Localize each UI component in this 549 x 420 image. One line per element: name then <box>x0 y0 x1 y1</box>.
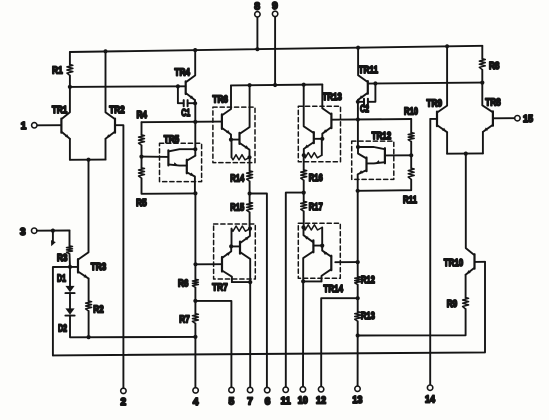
resistor TR14 internal <box>304 225 323 230</box>
svg-text:8: 8 <box>254 1 260 12</box>
svg-text:2: 2 <box>121 397 127 408</box>
wire TR6 emitter to R14 <box>249 157 251 171</box>
node TR14 interstage <box>320 244 324 248</box>
pin 10 terminal <box>300 387 305 392</box>
transistor TR1 <box>61 119 70 139</box>
label C2 <box>360 103 369 115</box>
label R13 <box>361 310 375 322</box>
resistor TR13 internal <box>304 153 322 158</box>
dashed outline TR12 <box>352 141 394 179</box>
label 3 <box>20 227 26 238</box>
svg-text:6: 6 <box>265 396 271 407</box>
pin 8 terminal <box>255 12 260 17</box>
label TR8 <box>485 96 501 108</box>
svg-text:R2: R2 <box>93 303 104 315</box>
wire TR3 emitter to R2 <box>88 279 90 301</box>
pin 5 terminal <box>229 387 234 392</box>
resistor R4 <box>139 135 145 146</box>
svg-text:R16: R16 <box>309 172 323 184</box>
pin 9 terminal <box>272 11 277 16</box>
capacitor C2 <box>364 99 368 105</box>
svg-text:TR12: TR12 <box>372 130 392 142</box>
label 5 <box>229 397 235 408</box>
wire TR9 emitter drop <box>446 132 448 154</box>
pin 7 terminal <box>247 387 252 392</box>
wire TR7 base line <box>196 263 223 265</box>
node C2 tap <box>373 81 377 85</box>
node C2-emitter junction <box>356 100 360 104</box>
node R16-R17 junction <box>302 191 306 195</box>
label 6 <box>265 396 271 407</box>
transistor TR11 <box>358 81 368 100</box>
resistor R9 <box>463 298 469 310</box>
label C1 <box>181 107 190 119</box>
pin 14 terminal <box>427 385 432 390</box>
pin 2 terminal <box>121 388 126 393</box>
node TR2 collector on rail <box>103 49 107 53</box>
label 8 <box>254 1 260 12</box>
wire link to pin 5 column <box>195 301 231 388</box>
resistor R2 <box>86 301 92 311</box>
transistor TR7b <box>240 229 250 283</box>
label 2 <box>121 397 127 408</box>
transistor TR8 <box>483 111 493 132</box>
label TR3 <box>91 261 107 273</box>
node TR5 base tap <box>139 155 143 159</box>
transistor TR14a <box>322 246 332 282</box>
svg-text:C1: C1 <box>181 107 190 119</box>
label TR12 <box>372 130 392 142</box>
node C1 tap <box>176 84 180 88</box>
label R8 <box>489 60 500 72</box>
wire C2 right lead <box>368 84 376 102</box>
wire TR6a collector <box>222 85 231 115</box>
wire TR2 collector <box>106 51 116 119</box>
label 15 <box>523 114 533 125</box>
label R11 <box>403 194 417 206</box>
svg-text:R8: R8 <box>489 60 500 72</box>
wire R7 top lead <box>194 301 196 314</box>
wire center collector rail <box>231 84 322 87</box>
transistor TR7a <box>222 246 232 282</box>
resistor R6 <box>192 279 198 287</box>
svg-text:D1: D1 <box>57 272 66 284</box>
svg-text:TR11: TR11 <box>359 64 379 76</box>
svg-text:11: 11 <box>281 396 291 407</box>
wire TR7 collectors bottom <box>232 281 250 283</box>
label TR4 <box>174 67 190 79</box>
resistor TR6 internal <box>232 155 250 160</box>
pin 3 terminal <box>32 228 37 233</box>
label R2 <box>93 303 104 315</box>
svg-text:TR1: TR1 <box>52 104 68 116</box>
node TR13 interstage <box>320 137 324 141</box>
transistor TR13b <box>304 85 314 156</box>
label TR1 <box>52 104 68 116</box>
wire TR3 base lead <box>70 266 78 268</box>
node TR7 collector junction <box>248 280 252 284</box>
svg-text:R11: R11 <box>403 194 417 206</box>
transistor TR2 <box>106 119 116 139</box>
wire TR1 collector <box>61 87 70 119</box>
svg-text:R13: R13 <box>361 310 375 322</box>
transistor TR13a <box>322 114 331 139</box>
label TR7 <box>212 282 228 294</box>
svg-text:TR8: TR8 <box>485 96 501 108</box>
label 4 <box>193 397 199 408</box>
svg-text:R9: R9 <box>447 298 458 310</box>
node substrate tap <box>51 229 55 233</box>
svg-text:TR3: TR3 <box>91 261 107 273</box>
wire TR7 b-e resistor left leg <box>231 229 233 247</box>
wire TR4 emitter drop <box>194 100 196 103</box>
wire TR9 collector <box>437 46 447 112</box>
node TR6 interstage <box>229 138 233 142</box>
svg-text:C2: C2 <box>360 103 369 115</box>
wire TR13 b-e resistor right leg <box>321 139 323 155</box>
wire R2 bottom <box>88 311 90 337</box>
wire TR9 base to pin 14 <box>429 119 431 385</box>
svg-text:R7: R7 <box>179 313 190 325</box>
label R16 <box>309 172 323 184</box>
node pin9 on center rail <box>273 83 277 87</box>
label R6 <box>178 277 189 289</box>
resistor R7 <box>192 314 198 324</box>
node TR13 collector on center rail <box>302 83 306 87</box>
label TR10 <box>444 257 464 269</box>
wire TR8 base to pin 15 <box>493 117 515 119</box>
wire TR7 to pin 7 <box>249 282 251 388</box>
node R8 bottom <box>480 81 484 85</box>
label TR5 <box>164 134 180 146</box>
label R7 <box>179 313 190 325</box>
resistor TR7 internal <box>232 226 251 231</box>
svg-text:R15: R15 <box>230 201 244 213</box>
pin 11 terminal <box>283 387 288 392</box>
svg-text:15: 15 <box>523 114 533 125</box>
pin 13 terminal <box>355 386 360 391</box>
wire node column <box>194 103 196 155</box>
wire R4-R5 link <box>141 145 143 168</box>
node TR6 emitter junction <box>247 155 251 159</box>
wire TR12 emitter column <box>357 191 359 277</box>
wire TR14 base line <box>335 261 357 263</box>
wire pin 9 drop <box>274 17 276 86</box>
node TR13 emitter junction <box>302 153 306 157</box>
node TR4 collector on rail <box>193 48 197 52</box>
resistor R16 <box>301 170 307 180</box>
wire C2 left lead <box>358 101 364 103</box>
wire base node to bottom rail <box>53 267 70 356</box>
svg-text:R5: R5 <box>136 197 147 209</box>
wire R3 top lead <box>69 231 71 246</box>
wire TR10 emitter to R9 <box>465 275 467 298</box>
wire TR13 base line <box>331 118 411 121</box>
svg-text:R12: R12 <box>361 274 375 286</box>
node TR7 resistor-R15 junction <box>248 227 252 231</box>
svg-text:R1: R1 <box>52 64 63 76</box>
node pin8-rail junction <box>255 47 259 51</box>
wire R13 top lead <box>357 298 359 311</box>
wire left bias line <box>70 85 186 88</box>
node R6-R7 junction <box>193 299 197 303</box>
pin 6 terminal <box>265 387 270 392</box>
dashed outline TR6 <box>213 107 255 163</box>
wire R9 bottom corner <box>358 309 466 336</box>
label R15 <box>230 201 244 213</box>
label 1 <box>21 121 27 132</box>
wire R3 to base node <box>69 254 72 267</box>
node TR11 collector on rail <box>356 46 360 50</box>
wire pin 3 lead <box>37 230 70 232</box>
label R17 <box>309 201 323 213</box>
wire R1 to bias node <box>69 76 71 87</box>
resistor R12 <box>355 277 361 285</box>
label R3 <box>57 252 68 264</box>
wire D2 bottom <box>70 316 195 338</box>
wire D1-D2 link <box>69 293 71 308</box>
label 13 <box>352 395 362 406</box>
wire common emitter line <box>70 159 106 161</box>
label R9 <box>447 298 458 310</box>
transistor TR12b <box>358 147 367 191</box>
resistor R15 <box>247 202 253 212</box>
node R12-R13 junction <box>356 296 360 300</box>
pin 1 terminal <box>32 123 37 128</box>
transistor TR4 <box>186 81 195 100</box>
svg-text:R6: R6 <box>178 277 189 289</box>
svg-text:TR5: TR5 <box>164 134 180 146</box>
label TR9 <box>427 97 443 109</box>
wire R13 to pin 13 <box>357 321 359 386</box>
wire top rail left corner to R1 <box>69 52 71 65</box>
wire TR13a collector <box>322 85 331 115</box>
svg-text:R3: R3 <box>57 252 68 264</box>
diode D1 <box>65 286 74 293</box>
wire TR4 collector <box>186 50 196 82</box>
resistor R5 <box>139 168 145 178</box>
wire R6 to link <box>194 287 196 301</box>
wire C1 left lead <box>178 86 184 103</box>
wire right bias line <box>368 83 483 84</box>
wire R8 to bias node <box>481 70 483 83</box>
node TR7 interstage <box>229 244 233 248</box>
wire R7 to pin 4 <box>194 324 196 388</box>
diode D1 anode wire <box>69 267 71 286</box>
wire link to pin 12 column <box>321 298 358 387</box>
svg-text:1: 1 <box>21 121 27 132</box>
svg-text:13: 13 <box>352 395 362 406</box>
svg-text:TR14: TR14 <box>324 283 344 295</box>
svg-text:9: 9 <box>272 1 278 12</box>
label R12 <box>361 274 375 286</box>
label 7 <box>247 396 253 407</box>
svg-text:7: 7 <box>247 396 253 407</box>
wire R5 bottom corner <box>142 178 196 194</box>
node C1-emitter junction <box>193 101 197 105</box>
label TR11 <box>359 64 379 76</box>
wire tail current drop <box>78 160 89 260</box>
node R1 bottom <box>68 85 72 89</box>
svg-text:R14: R14 <box>230 172 244 184</box>
wire R17 to TR14 <box>303 211 305 227</box>
label 11 <box>281 396 291 407</box>
pin 15 terminal <box>515 116 520 121</box>
svg-text:10: 10 <box>298 396 308 407</box>
wire TR5 base lead <box>142 156 169 158</box>
wire R17 top lead <box>303 193 305 202</box>
wire R11 bottom corner <box>358 179 412 190</box>
wire R4 top lead <box>141 122 143 135</box>
wire TR11 collector <box>358 48 368 82</box>
node TR9 collector on rail <box>445 44 449 48</box>
node TR7 base tap <box>193 262 197 266</box>
resistor R14 <box>247 171 253 181</box>
label 14 <box>425 394 435 405</box>
node TR12 emitter junction <box>356 189 360 193</box>
label 10 <box>298 396 308 407</box>
dashed outline TR14 <box>298 223 340 278</box>
wire top rail right corner to R8 <box>481 46 483 59</box>
capacitor C1 <box>184 100 188 106</box>
wire TR14 to pin 10 <box>302 281 304 387</box>
wire pin 8 drop <box>256 17 258 49</box>
node TR5 collector junction <box>193 147 197 151</box>
svg-text:3: 3 <box>20 227 26 238</box>
transistor TR10 <box>466 254 475 275</box>
svg-text:5: 5 <box>229 397 235 408</box>
dashed outline TR13 <box>298 106 340 162</box>
resistor R1 <box>67 65 73 76</box>
wire R15 top lead <box>249 194 251 203</box>
wire bottom rail <box>53 262 485 356</box>
node TR4 emitter node <box>193 120 197 124</box>
wire TR1 emitter drop <box>69 139 71 160</box>
label 9 <box>272 1 278 12</box>
svg-text:12: 12 <box>316 396 326 407</box>
label R10 <box>404 106 418 118</box>
wire TR10 base to bottom rail <box>475 261 486 263</box>
svg-text:TR4: TR4 <box>174 67 190 79</box>
svg-text:TR13: TR13 <box>322 91 342 103</box>
wire TR14 b-e resistor right leg <box>321 227 323 245</box>
svg-text:TR9: TR9 <box>427 97 443 109</box>
wire output common emitter line <box>447 152 483 154</box>
wire top supply rail <box>70 46 482 52</box>
svg-text:TR2: TR2 <box>109 104 125 116</box>
transistor TR5a <box>168 149 195 165</box>
label TR6 <box>212 93 228 105</box>
wire TR2 emitter drop <box>105 139 107 160</box>
pin 12 terminal <box>318 387 323 392</box>
svg-text:4: 4 <box>193 397 199 408</box>
wire R14 to junction <box>249 181 251 193</box>
node output tail junction <box>464 152 468 156</box>
node tail junction <box>86 158 90 162</box>
wire tail to TR10 <box>466 154 475 256</box>
svg-text:TR7: TR7 <box>212 282 228 294</box>
node TR13 base node <box>356 117 360 121</box>
label TR13 <box>322 91 342 103</box>
transistor TR6b <box>240 85 250 157</box>
node TR12 collector junction <box>356 145 360 149</box>
node TR3 base node <box>68 265 72 269</box>
wire C1 right lead <box>188 102 195 104</box>
wire TR7b base <box>231 245 240 247</box>
wire R12 to link <box>357 285 359 299</box>
svg-text:D2: D2 <box>58 322 67 334</box>
node TR14 resistor-R17 junction <box>301 225 305 229</box>
node R2 bottom junction <box>87 335 91 339</box>
svg-text:R10: R10 <box>404 106 418 118</box>
transistor TR14b <box>303 227 313 281</box>
wire junction to pin6 column <box>250 194 267 389</box>
wire TR14 collectors bottom <box>303 280 321 282</box>
wire TR8 collector <box>482 83 493 113</box>
wire R15 to TR7 <box>249 212 251 228</box>
wire R10 top lead <box>410 119 412 133</box>
node D2-R2 line junction <box>193 335 197 339</box>
node TR5 emitter junction <box>193 191 197 195</box>
transistor TR5b <box>187 156 196 194</box>
pin 4 terminal <box>193 388 198 393</box>
dashed outline TR5 <box>160 143 202 181</box>
svg-text:TR6: TR6 <box>212 93 228 105</box>
wire TR6 b-e resistor left leg <box>231 140 233 158</box>
node TR12 base tap <box>409 153 413 157</box>
wire TR12 base lead <box>385 154 411 156</box>
wire TR6b base <box>231 139 240 141</box>
wire TR14b base <box>313 245 322 247</box>
label TR2 <box>109 104 125 116</box>
resistor R10 <box>408 133 414 142</box>
wire TR13 emitter to R16 <box>303 155 305 170</box>
resistor R11 <box>408 168 414 179</box>
node TR14 base tap <box>356 260 360 264</box>
resistor R3 <box>67 246 73 254</box>
wire junction to pin11 column <box>286 193 304 388</box>
transistor TR12a <box>358 147 385 163</box>
label TR14 <box>324 283 344 295</box>
wire TR9 base corner <box>430 118 437 120</box>
wire TR8 emitter drop <box>482 132 484 154</box>
wire TR6 base line <box>142 121 222 124</box>
label R5 <box>136 197 147 209</box>
wire R16 to junction <box>303 180 305 192</box>
resistor R8 <box>479 59 485 70</box>
label D2 <box>58 322 67 334</box>
wire TR5 emitter column <box>194 193 196 279</box>
diode D2 <box>65 308 74 315</box>
svg-text:TR10: TR10 <box>444 257 464 269</box>
resistor R17 <box>301 201 307 211</box>
wire TR2 base to pin 2 <box>115 125 123 388</box>
substrate arrow <box>51 231 56 247</box>
node TR14 collector junction <box>301 279 305 283</box>
svg-text:R4: R4 <box>136 109 147 121</box>
transistor TR6a <box>222 114 231 139</box>
dashed outline TR7 <box>214 224 256 279</box>
node R14-R15 junction <box>248 191 252 195</box>
wire TR13b base <box>314 138 323 140</box>
label D1 <box>57 272 66 284</box>
label R1 <box>52 64 63 76</box>
wire pin 1 lead <box>37 124 62 126</box>
node R9 line junction <box>356 333 360 337</box>
label R4 <box>136 109 147 121</box>
transistor TR9 <box>437 112 447 133</box>
wire TR11 emitter column <box>357 100 359 147</box>
